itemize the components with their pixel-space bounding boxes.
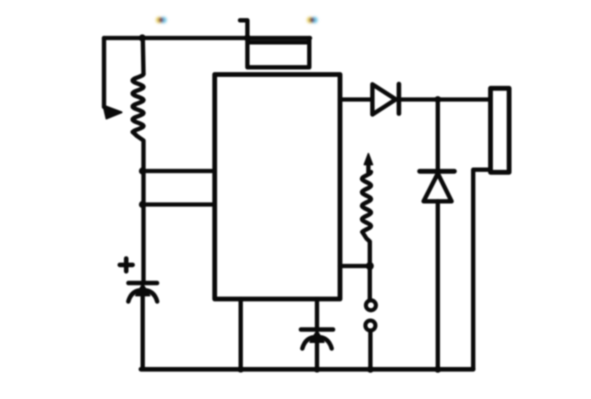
node junction dot A (coil top): [139, 34, 146, 41]
node junction dot I (pin on rail): [238, 366, 244, 372]
switch S1 contact lower: [365, 321, 375, 331]
inductor L1: [133, 74, 144, 132]
inductor L2 top lead: [366, 160, 370, 173]
artifact speck 2: [307, 17, 318, 23]
wire IC pin bottom-left: [239, 299, 243, 369]
diode D2 top lead: [436, 100, 440, 170]
artifact speck 1: [156, 17, 167, 23]
tap arrow on coil L1: [104, 106, 122, 119]
wire tap lead left: [102, 38, 106, 107]
capacitor C1 curved plate: [128, 290, 157, 302]
wire IC pin bottom-right (to C2): [315, 299, 319, 329]
node junction dot C: [139, 167, 146, 174]
inductor L2: [362, 172, 371, 232]
capacitor C1 arrow: [136, 284, 150, 296]
diode D2 bottom lead: [436, 201, 440, 369]
crystal box Y1 (small rectangle above IC): [247, 38, 309, 67]
wire pin 2 (lower left pin to IC): [143, 202, 217, 206]
switch S1 bottom lead: [368, 331, 372, 370]
wire pin 1 (upper left pin to IC): [143, 169, 217, 173]
inductor L2 arrow: [364, 154, 372, 165]
diode D2 cathode bar: [420, 169, 455, 174]
diode D2 triangle: [424, 174, 452, 202]
capacitor C1 bottom lead: [141, 293, 145, 369]
IC U1 body: [215, 75, 340, 300]
wire top rail: [104, 36, 310, 40]
wire IC to switch node: [340, 264, 370, 268]
switch S1 contact upper: [366, 300, 376, 310]
node junction dot E (zener top): [434, 96, 441, 103]
wire D1 to connector J1: [399, 97, 490, 101]
node junction dot F (zener on rail): [434, 366, 441, 373]
capacitor C2 top plate: [301, 327, 333, 332]
capacitor C2 curved plate: [302, 337, 331, 349]
node junction dot G: [366, 262, 374, 270]
capacitor C1 top plate: [129, 281, 158, 286]
capacitor C1 plus sign: [120, 259, 133, 272]
inductor L1 top lead: [141, 38, 146, 74]
connector J1 body: [491, 88, 510, 172]
capacitor C2 bottom lead: [315, 340, 319, 369]
wire IC output to diode D1: [340, 97, 370, 101]
diode D1 triangle: [372, 84, 395, 114]
node junction dot J (C2 on rail): [314, 366, 320, 372]
wire bottom ground rail: [141, 367, 473, 372]
connector J1 bottom lead: [473, 170, 490, 370]
capacitor C2 arrow: [310, 331, 324, 343]
node junction dot B (hook on rail): [244, 35, 251, 42]
inductor L1 bottom lead: [133, 132, 144, 283]
antenna stub hook: [240, 20, 247, 38]
node junction dot H (switch on rail): [367, 366, 374, 373]
inductor L2 bottom lead: [362, 232, 370, 299]
diode D1 cathode bar: [397, 84, 402, 114]
node junction dot D: [139, 201, 146, 208]
